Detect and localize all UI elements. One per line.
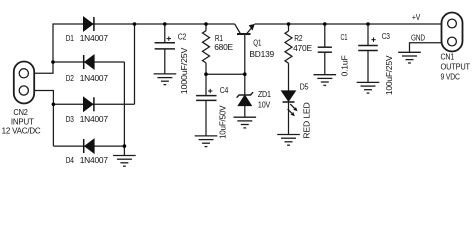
wire C1 lead <box>324 24 326 47</box>
transistor Q1 base bar <box>237 33 251 35</box>
svg-text:0.1uF: 0.1uF <box>340 55 350 76</box>
connector CN2 <box>14 62 34 104</box>
ground bridge <box>113 156 136 167</box>
wire C4 to ground <box>205 100 207 135</box>
plus C4 <box>208 89 212 93</box>
wire CN1 gnd pin <box>410 43 442 53</box>
svg-text:D2: D2 <box>66 73 74 83</box>
svg-text:12 VAC/DC: 12 VAC/DC <box>2 126 41 136</box>
wire R2 bottom lead to LED <box>288 63 290 91</box>
svg-text:470E: 470E <box>293 43 312 53</box>
capacitor C3 plates <box>358 46 378 51</box>
wire C2 to ground <box>164 49 166 74</box>
svg-text:C1: C1 <box>341 32 348 42</box>
diode D3 <box>83 97 94 111</box>
node dot R1 rail <box>204 22 208 26</box>
wire LED to ground <box>288 102 290 135</box>
wire base node row <box>206 73 245 75</box>
wire anode bus D2-D4 <box>123 62 125 146</box>
ground CN1 <box>398 52 421 63</box>
svg-text:1N4007: 1N4007 <box>80 114 109 124</box>
svg-text:1N4007: 1N4007 <box>80 73 109 83</box>
node dot C1 rail <box>323 22 327 26</box>
diode D2 <box>84 55 95 69</box>
svg-text:Q1: Q1 <box>253 38 261 48</box>
capacitor C2 plates <box>155 43 175 49</box>
svg-text:680E: 680E <box>214 42 233 52</box>
svg-text:CN1: CN1 <box>441 51 455 61</box>
svg-text:ZD1: ZD1 <box>258 89 271 99</box>
wire D4 row <box>53 145 124 147</box>
ground C3 <box>357 82 380 93</box>
wire R1 top lead <box>205 24 207 31</box>
wire cathode bus D1-D3 <box>134 24 136 104</box>
svg-text:D5: D5 <box>300 81 309 91</box>
svg-text:R2: R2 <box>294 33 303 43</box>
svg-text:10V: 10V <box>258 99 271 109</box>
node dot ZD1 base <box>243 72 247 76</box>
node dot bridge ground <box>123 144 127 148</box>
svg-text:+V: +V <box>412 12 421 22</box>
wire bridge ground stub <box>123 146 125 155</box>
ground ZD1 <box>234 117 257 128</box>
svg-text:1000uF/25V: 1000uF/25V <box>179 47 189 94</box>
resistor R2 zigzag <box>285 31 292 63</box>
zener ZD1 <box>237 92 254 105</box>
resistor R1 zigzag <box>203 31 210 63</box>
transistor Q1 emitter arrow <box>249 24 255 31</box>
diode D4 <box>84 139 95 153</box>
svg-text:100uF/25V: 100uF/25V <box>384 55 394 95</box>
node dot D1 rail <box>133 22 137 26</box>
wire C4 lead <box>205 74 207 95</box>
node dot D2 bus <box>51 60 55 64</box>
wire D1 row top rail to transistor collector <box>83 23 235 25</box>
wire CN2 top pin to upper bus and D1 anode <box>34 24 83 73</box>
svg-text:BD139: BD139 <box>249 49 274 59</box>
wire ZD1 to ground <box>244 106 246 118</box>
svg-text:GND: GND <box>411 33 425 43</box>
diode D1 <box>83 17 94 31</box>
svg-text:C4: C4 <box>220 85 229 95</box>
wire D3 row <box>53 103 134 105</box>
wire ZD1 top lead <box>244 74 246 95</box>
ground C2 <box>154 74 177 85</box>
wire C3 to ground <box>367 51 369 83</box>
ground C1 <box>314 75 337 86</box>
node dot R1 base <box>204 72 208 76</box>
wire R1 bottom lead <box>205 63 207 74</box>
ground C4 <box>195 136 218 147</box>
transistor Q1 emitter <box>247 26 253 34</box>
svg-text:C3: C3 <box>382 31 391 41</box>
transistor Q1 collector <box>235 24 241 34</box>
transistor Q1 base lead <box>244 34 246 74</box>
wire D2 anode lead <box>53 61 124 63</box>
capacitor C4 plates <box>196 96 216 101</box>
svg-text:C2: C2 <box>178 31 187 41</box>
node dot R2 rail <box>287 22 291 26</box>
wire emitter rail to CN1 <box>255 23 442 25</box>
node dot C2 rail <box>163 22 167 26</box>
connector CN1 <box>442 13 463 52</box>
wire R2 top lead <box>288 24 290 31</box>
wire C3 lead <box>367 24 369 45</box>
svg-text:D1: D1 <box>66 33 74 43</box>
svg-text:CN2: CN2 <box>13 107 28 117</box>
svg-text:1N4007: 1N4007 <box>80 33 109 43</box>
capacitor C1 plates <box>318 47 332 52</box>
ground D5 <box>277 135 300 146</box>
wire CN2 bottom pin to lower bus <box>34 91 53 147</box>
svg-text:1N4007: 1N4007 <box>80 155 109 165</box>
wire C2 lead <box>164 24 166 42</box>
plus C2 <box>167 36 171 40</box>
svg-text:10uF/50V: 10uF/50V <box>217 105 227 139</box>
LED D5 <box>281 91 297 116</box>
node dot C3 rail <box>366 22 370 26</box>
plus C3 <box>371 38 375 42</box>
svg-text:RED LED: RED LED <box>301 102 311 138</box>
svg-text:OUTPUT: OUTPUT <box>441 62 470 72</box>
svg-text:D4: D4 <box>66 155 74 165</box>
svg-text:9 VDC: 9 VDC <box>441 72 460 82</box>
node dot D3 bus <box>52 103 56 107</box>
svg-text:D3: D3 <box>66 114 74 124</box>
wire C1 to ground <box>324 52 326 74</box>
